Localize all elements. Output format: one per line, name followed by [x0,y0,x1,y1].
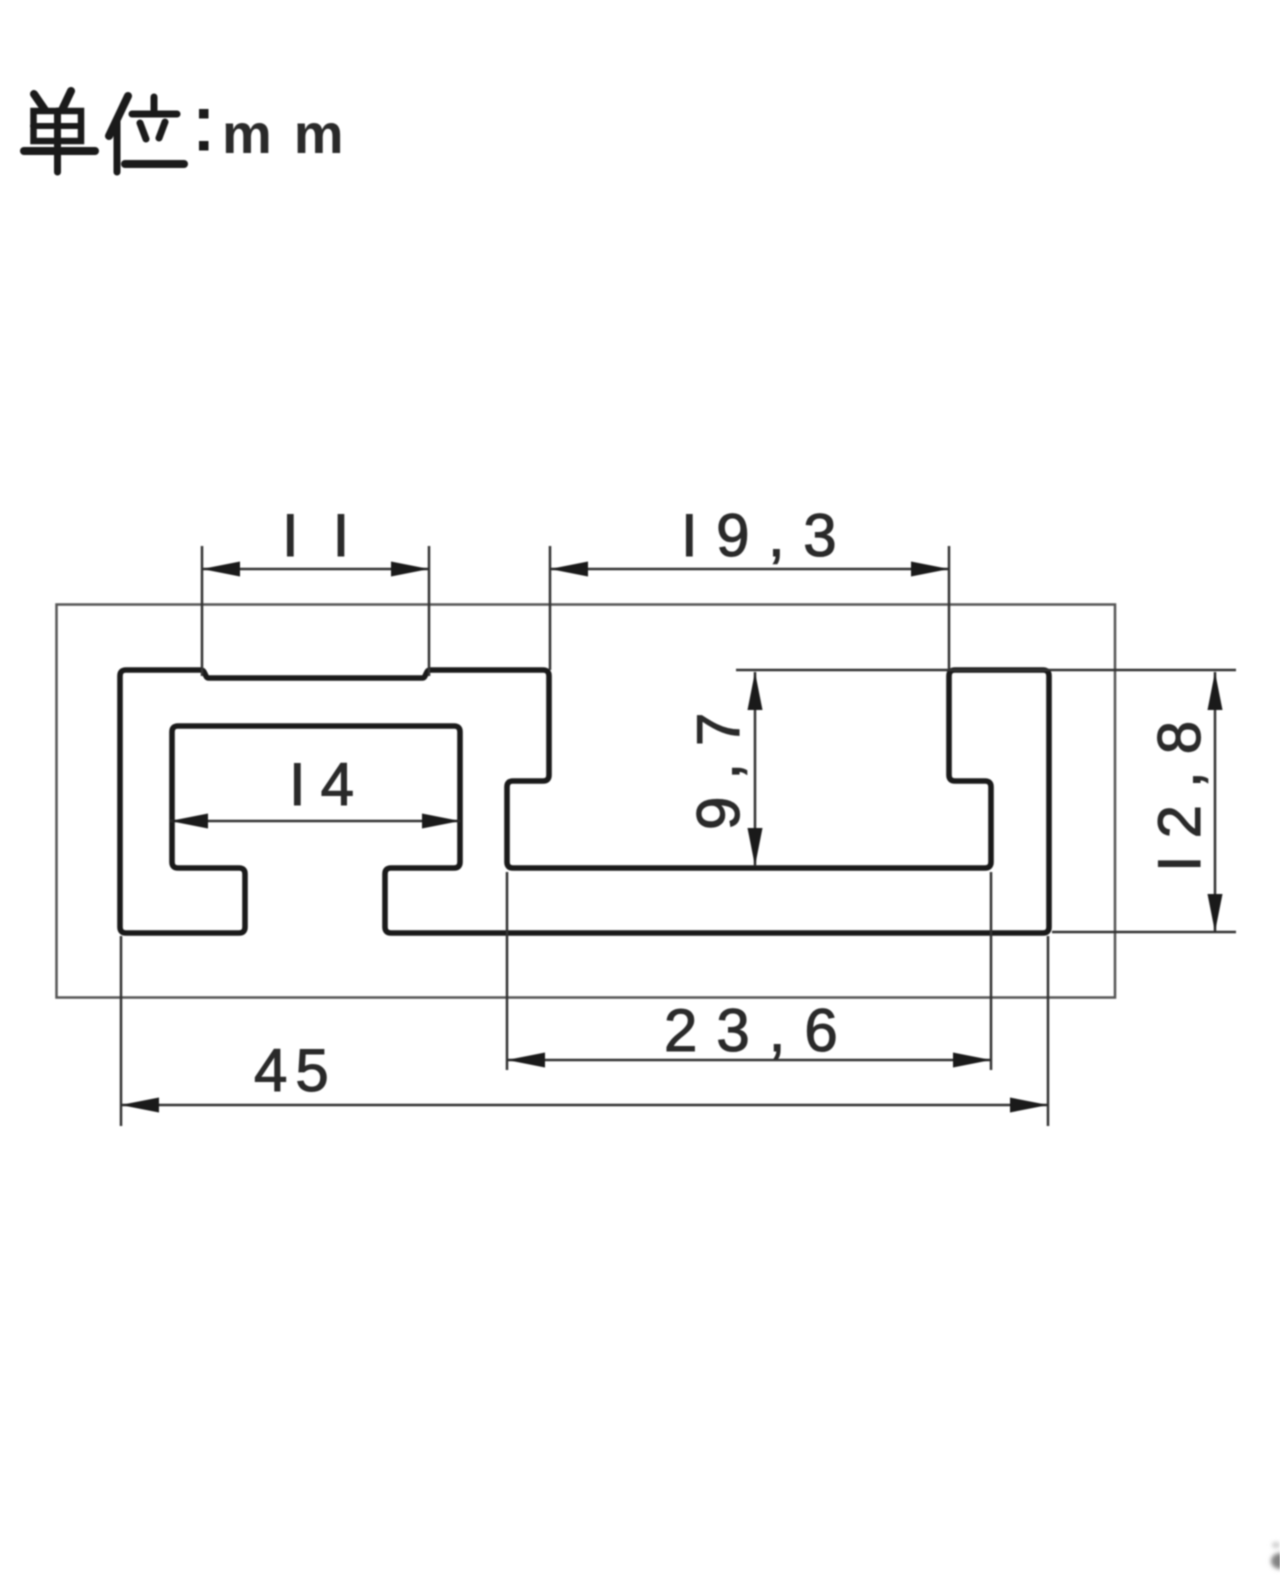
dimension 9,7: dimension line [754,672,757,866]
svg-text:45: 45 [254,1037,337,1104]
outer thin bounding rectangle [57,605,1116,998]
dimension 11: extension lines [202,546,429,676]
dimension 19,3: extension lines [550,546,949,670]
dimension 11: dimension line [202,568,429,571]
svg-text:II: II [282,502,383,569]
dimension 23,6: arrowheads [507,1053,991,1068]
dimension 12,8: bottom reference line [1052,931,1236,934]
title label: fullwidth colon [199,109,209,151]
svg-text:23,6: 23,6 [664,997,857,1064]
dimension 12,8: arrowheads [1208,672,1223,932]
profile outline (thick cross-section of T-track) [120,670,1049,933]
dimension 23,6: extension lines [507,872,991,1070]
dimension 45: arrowheads [121,1098,1048,1113]
dimension 45: extension lines [121,936,1048,1126]
dimension 9,7: top reference line [736,669,1236,672]
dimension 23,6: dimension line [507,1059,991,1062]
dimension 19,3: arrowheads [550,562,949,577]
svg-text:I9,3: I9,3 [681,502,855,569]
dimension 12,8: dimension line [1214,672,1217,932]
dimension 11: arrowheads [202,562,429,577]
svg-text:mm: mm [222,102,366,165]
title label: kanji 単 [24,91,95,172]
svg-text:I2,8: I2,8 [1146,704,1213,872]
dimension 9,7: arrowheads [748,672,763,866]
dimension 14: dimension line [170,820,460,823]
dimension 19,3: dimension line [550,568,949,571]
title label: kanji 位 [109,96,184,172]
svg-text:9,7: 9,7 [685,696,752,830]
dimension 45: dimension line [121,1104,1048,1107]
dimension 14: arrowheads [170,814,460,829]
svg-text:I4: I4 [289,751,369,818]
watermark blob bottom-right [1271,1542,1280,1569]
